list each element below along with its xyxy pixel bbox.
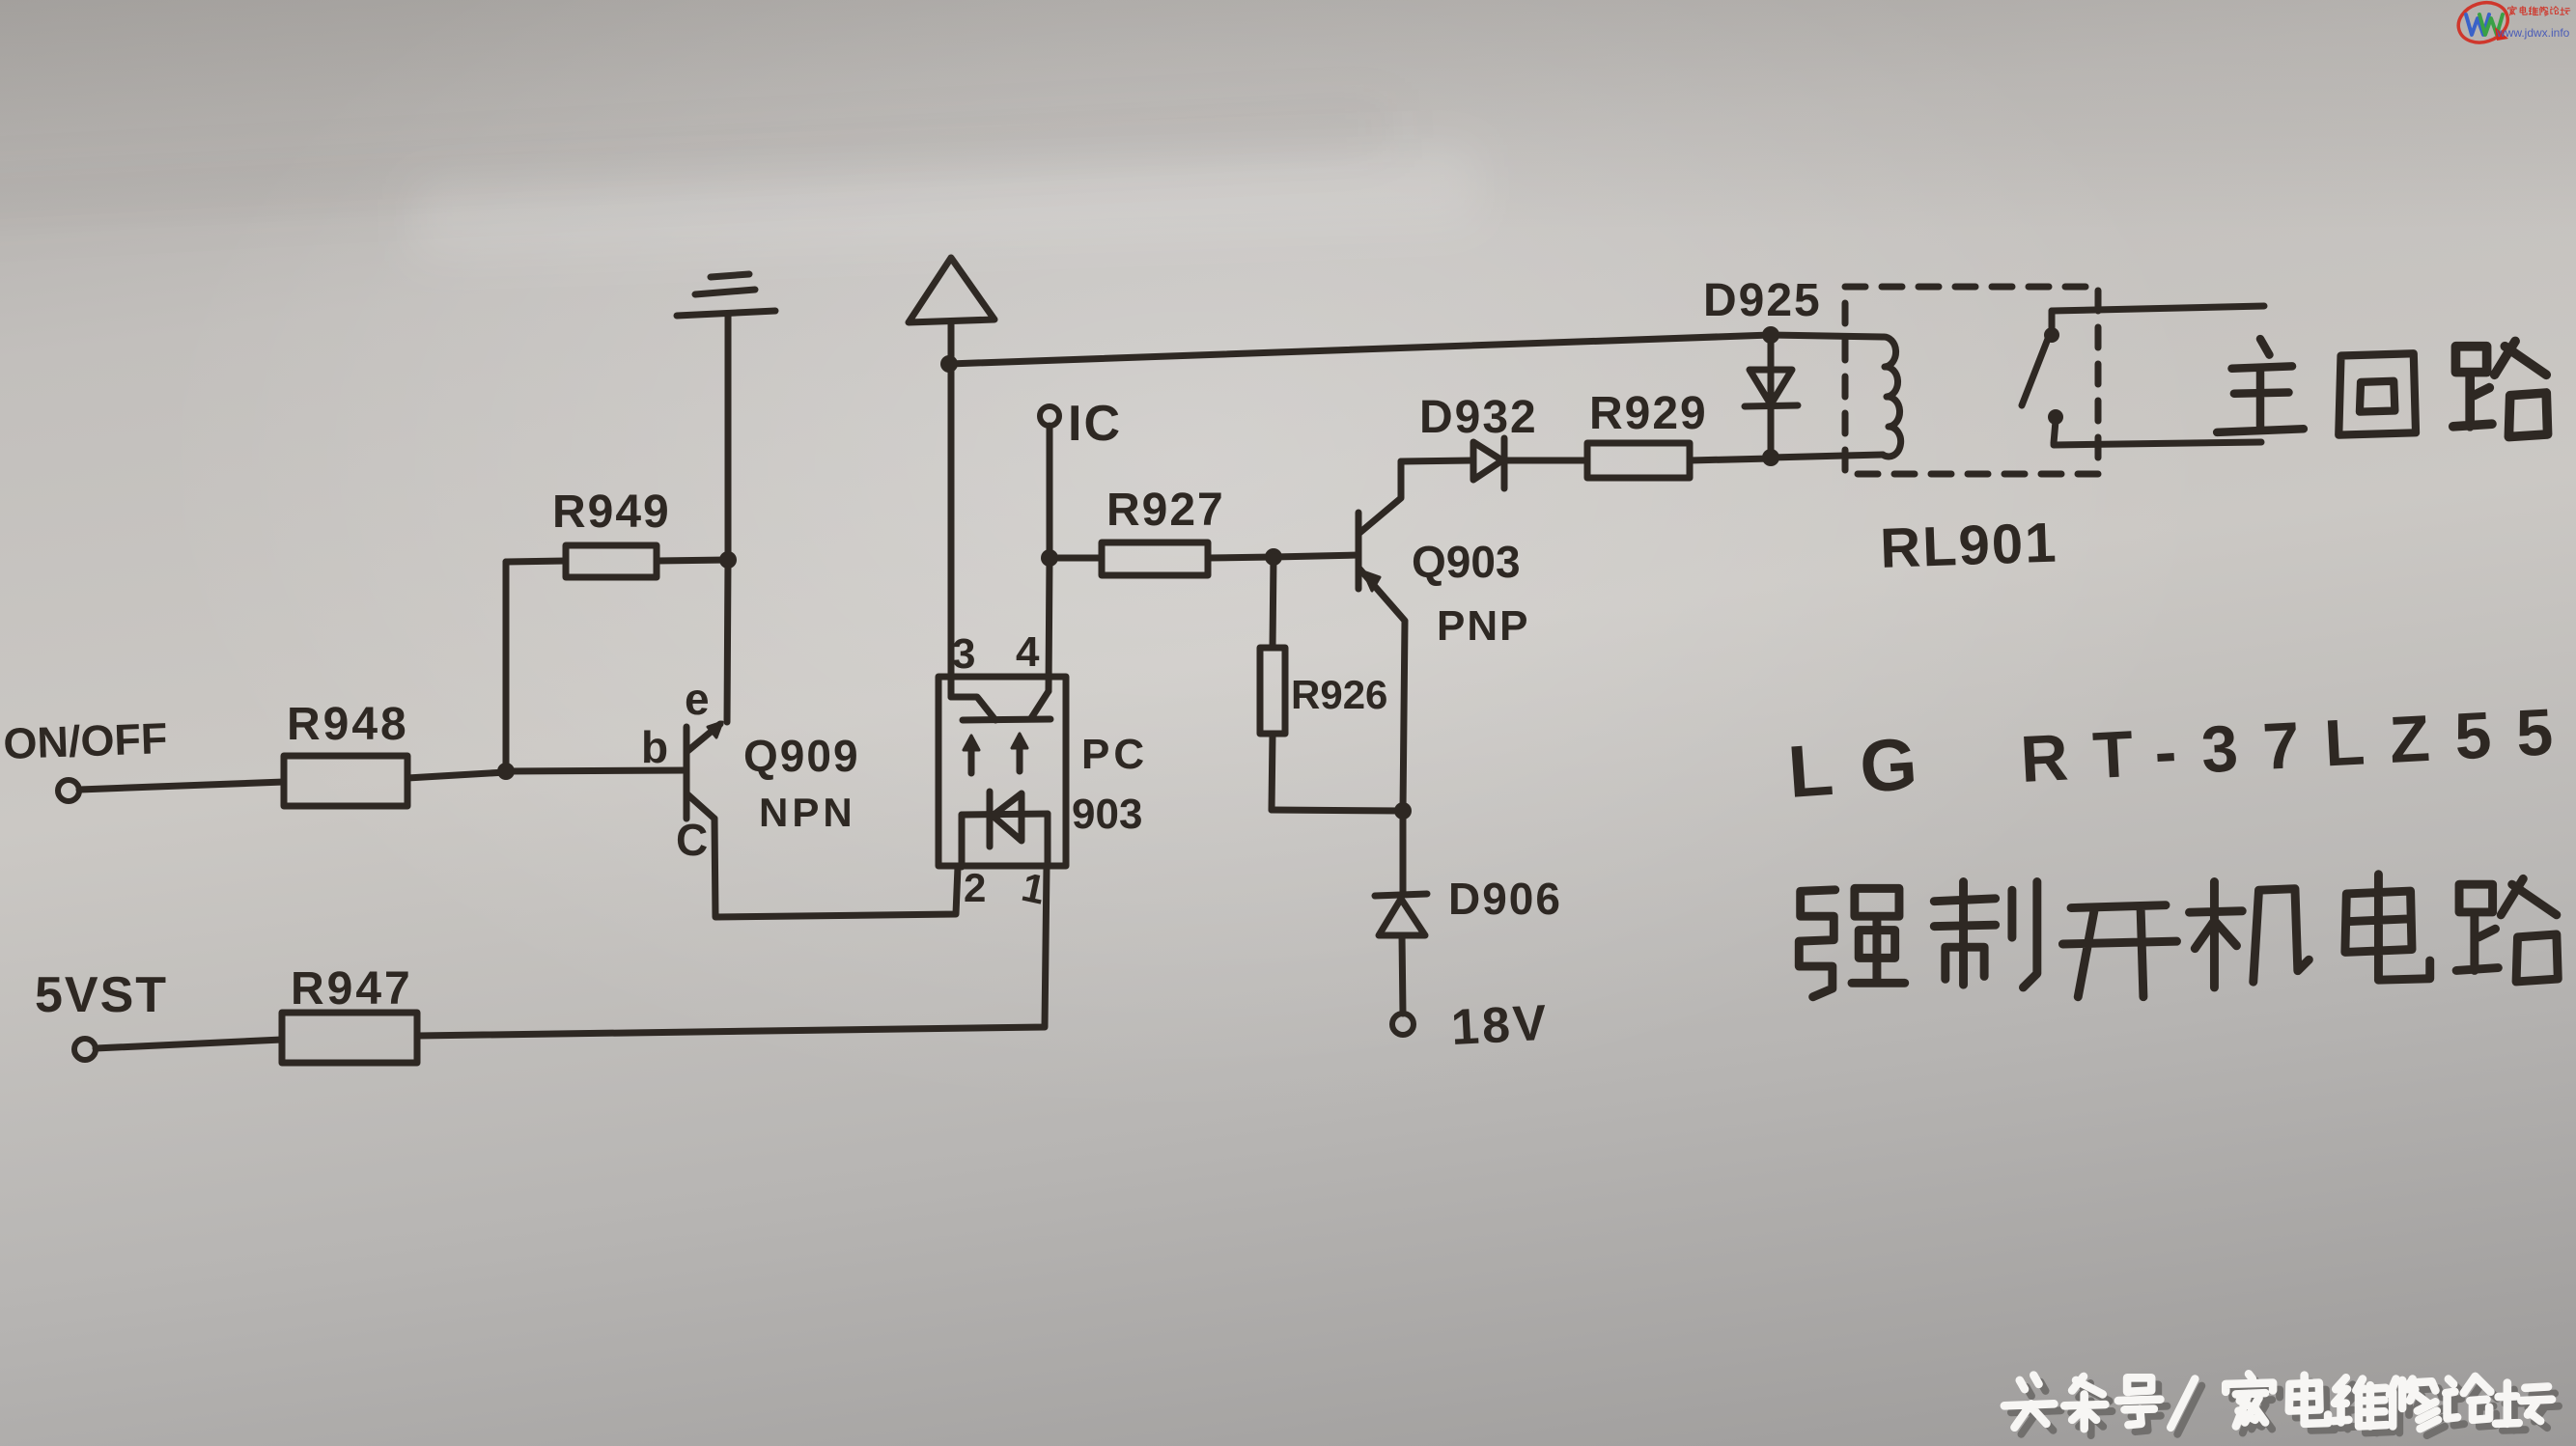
terminal IC <box>1040 406 1059 426</box>
transistor Q903 (PNP) <box>1358 461 1405 811</box>
svg-text:R927: R927 <box>1106 485 1225 536</box>
wire: R926 bottom to emitter node <box>1272 810 1403 811</box>
logo 家电维修论坛 (top-right) <box>2453 0 2570 48</box>
resistor R929 <box>1587 443 1771 478</box>
node: ON/OFF base junction <box>497 763 515 780</box>
wire: relay output top (to main loop) <box>2052 306 2264 311</box>
svg-text:2: 2 <box>964 865 986 910</box>
svg-text:R947: R947 <box>291 963 413 1015</box>
terminal ON/OFF <box>58 780 79 801</box>
node: R927/R926/Q903 base junction <box>1265 548 1282 566</box>
relay RL901 switch <box>2022 311 2063 443</box>
svg-text:PC: PC <box>1081 731 1148 778</box>
terminal 18V <box>1392 1014 1414 1035</box>
wire: supply rail to D925 <box>949 335 1883 364</box>
diode D925 <box>1745 335 1798 458</box>
svg-text:R926: R926 <box>1291 672 1387 717</box>
diode D906 (zener to 18V) <box>1375 811 1427 1014</box>
svg-text:RL901: RL901 <box>1879 511 2058 579</box>
watermark 头条号 / 家电维修论坛 <box>2004 1374 2552 1429</box>
wire: R949 left leg down to base node <box>503 562 510 771</box>
svg-text:903: 903 <box>1072 791 1142 838</box>
power triangle symbol <box>909 258 994 697</box>
svg-text:D906: D906 <box>1448 874 1562 924</box>
svg-text:3: 3 <box>952 630 975 678</box>
svg-text:R929: R929 <box>1589 388 1708 439</box>
svg-text:LG: LG <box>1785 721 1946 814</box>
resistor R927 <box>1050 542 1274 575</box>
node: supply rail junction <box>940 355 958 373</box>
ground (chassis) symbol <box>677 274 775 316</box>
wire: node to Q903 base <box>1274 555 1358 557</box>
terminal 5VST <box>74 1039 96 1060</box>
watermark shadow 头条号 / 家电维修论坛 <box>2011 1380 2559 1435</box>
resistor R947 <box>282 1013 417 1063</box>
svg-text:PNP: PNP <box>1437 602 1529 650</box>
svg-text:Q903: Q903 <box>1412 537 1521 587</box>
svg-text:www.jdwx.info: www.jdwx.info <box>2496 26 2570 40</box>
annotation 主回路 (main loop) <box>2217 339 2547 436</box>
svg-text:e: e <box>685 674 710 724</box>
wire: IC to R927 node and PC903 pin4 <box>1049 426 1050 691</box>
wire: base node to Q909 base <box>506 770 686 771</box>
node: R949/emitter junction <box>719 551 737 569</box>
node: IC / R927 junction <box>1041 549 1058 567</box>
svg-text:IC: IC <box>1068 396 1122 452</box>
resistor R949 <box>506 545 728 577</box>
svg-text:18V: 18V <box>1450 995 1551 1056</box>
node: D925 bottom <box>1762 449 1779 466</box>
svg-text:D932: D932 <box>1419 392 1538 443</box>
annotation 强制开机电路 (forced power-on circuit) <box>1799 875 2558 997</box>
wire: R947 to PC903 pin1 <box>417 867 1047 1036</box>
node: emitter/D906 junction <box>1394 802 1412 820</box>
svg-text:5VST: 5VST <box>35 967 168 1023</box>
svg-text:D925: D925 <box>1703 275 1822 326</box>
wire: 5VST to R947 <box>96 1040 282 1048</box>
svg-text:ON/OFF: ON/OFF <box>3 713 169 768</box>
svg-text:4: 4 <box>1016 628 1040 676</box>
svg-text:Q909: Q909 <box>743 731 860 781</box>
node: D925 top <box>1762 326 1779 344</box>
relay RL901 coil <box>1883 337 1901 457</box>
wire: D925 bottom to relay coil <box>1771 455 1883 458</box>
svg-text:b: b <box>641 722 668 772</box>
svg-text:R948: R948 <box>287 699 409 750</box>
wire: ON/OFF to R948 <box>79 782 284 790</box>
wire: relay output bottom (to main loop) <box>2054 442 2261 445</box>
wire: R948 to base node <box>407 772 506 778</box>
wire: Q909 collector down and right to PC903 pin2 <box>714 819 958 917</box>
svg-text:C: C <box>676 815 708 865</box>
svg-text:R949: R949 <box>552 487 671 538</box>
resistor R926 <box>1260 557 1285 810</box>
transistor Q909 (NPN) <box>686 722 722 819</box>
optocoupler PC903 <box>938 677 1066 867</box>
wire: ground to Q909 emitter / R949 node <box>727 314 728 722</box>
diode D932 <box>1401 438 1587 488</box>
relay RL901 dashed housing <box>1845 287 2098 474</box>
svg-text:NPN: NPN <box>759 790 856 835</box>
resistor R948 <box>284 756 407 806</box>
svg-text:RT-37LZ55: RT-37LZ55 <box>2019 694 2576 796</box>
